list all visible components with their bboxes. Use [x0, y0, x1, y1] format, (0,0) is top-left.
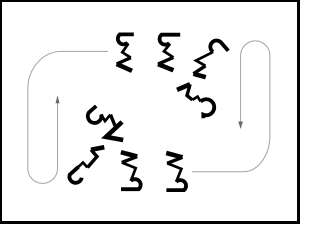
squiggle G (bottom left of centre, inverted)	[121, 152, 141, 189]
squiggle E (lower left, tilted)	[69, 147, 104, 183]
left cycle arrow	[28, 51, 108, 183]
squiggle A (top left of centre, upright)	[117, 34, 134, 70]
squiggle C (upper right, tilted)	[193, 41, 228, 78]
right cycle arrow	[192, 41, 270, 172]
squiggle F (left, tilted forward)	[88, 106, 123, 140]
right arrowhead	[238, 122, 243, 130]
squiggle H (bottom right of centre, inverted)	[166, 153, 186, 190]
squiggle D (right, tilted back)	[177, 84, 214, 118]
squiggle B (top right of centre, upright)	[158, 35, 180, 71]
left arrowhead	[56, 95, 60, 103]
